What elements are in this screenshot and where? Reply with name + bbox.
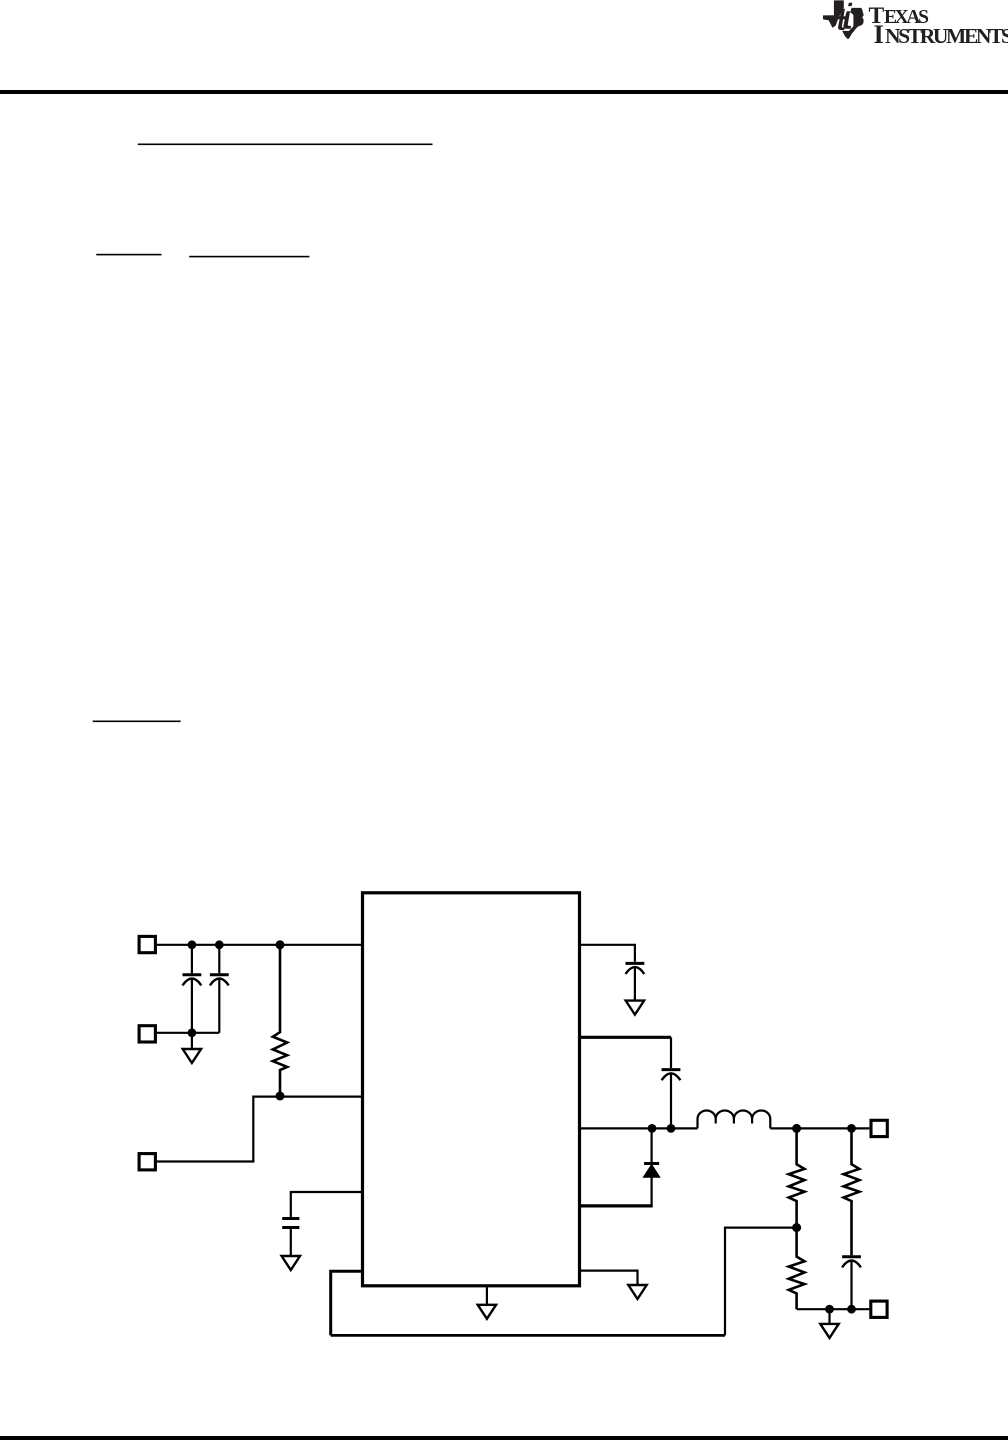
- terminal J2 GND-in: [139, 1026, 155, 1042]
- capacitor C4 bootstrap: [662, 1070, 681, 1129]
- capacitor C2: [210, 945, 229, 1033]
- terminal J3 EN: [139, 1154, 155, 1170]
- node outgnd-J5: [847, 1305, 856, 1314]
- node VOUT-divider: [792, 1124, 801, 1133]
- letter i of ti: [843, 11, 851, 29]
- capacitor C3 bypass: [626, 963, 645, 1000]
- resistor R2 (divider top): [789, 1128, 805, 1227]
- ground soft-start: [282, 1256, 300, 1270]
- bottom footer rule: [0, 1436, 1008, 1440]
- ground output: [820, 1309, 838, 1338]
- capacitor C5 soft-start: [282, 1219, 299, 1257]
- letter t of ti: [837, 9, 847, 30]
- wire PGND to diode (thick): [581, 1204, 653, 1207]
- wire FB bottom run: [331, 1334, 725, 1337]
- wire VIN bypass pin: [581, 945, 635, 962]
- ground U1 analog: [478, 1286, 496, 1319]
- node SW-diode: [648, 1124, 657, 1133]
- resistor R1 (enable pull-up): [273, 945, 287, 1096]
- TI logo bug (Texas outline): [823, 0, 864, 39]
- link underline left: [96, 254, 161, 256]
- node VIN-R1: [276, 940, 285, 949]
- wire VIN to U1: [157, 944, 363, 946]
- wire EN to U1: [157, 1097, 363, 1162]
- dot of i: [848, 3, 852, 6]
- wire PGND right pin: [581, 1271, 638, 1285]
- svg-text:I: I: [874, 19, 884, 49]
- link underline right: [189, 256, 309, 258]
- title underline (invisible text link): [138, 144, 433, 146]
- terminal J1 VIN: [139, 936, 155, 952]
- wire COMP pin (thick): [331, 1271, 363, 1335]
- diode D1 catch: [644, 1128, 659, 1206]
- op-amp U1 (regulator IC box): [363, 893, 580, 1286]
- node EN: [276, 1092, 285, 1101]
- terminal J4 VOUT: [871, 1120, 887, 1136]
- wire J2 to C1/C2 bottoms: [157, 1032, 220, 1034]
- wire output bottom: [797, 1308, 870, 1310]
- ground right: [628, 1285, 646, 1299]
- node FB: [792, 1223, 801, 1232]
- resistor R3 (divider bottom): [789, 1228, 805, 1310]
- capacitor C6 feed-forward: [842, 1257, 861, 1309]
- svg-text:NSTRUMENTS: NSTRUMENTS: [885, 24, 1008, 48]
- resistor R4 (feed-forward): [844, 1128, 860, 1255]
- wire SS pin: [291, 1192, 363, 1217]
- node outgnd: [825, 1305, 834, 1314]
- wire SW to inductor: [581, 1127, 698, 1129]
- wire FB up to divider: [725, 1228, 797, 1336]
- capacitor C1: [183, 945, 202, 1033]
- inductor L1: [698, 1111, 771, 1129]
- ground input: [183, 1033, 201, 1063]
- node GND-in: [188, 1028, 197, 1037]
- node VOUT-C6: [847, 1124, 856, 1133]
- terminal J5 VOUT return: [871, 1301, 887, 1317]
- ground bypass: [626, 1001, 644, 1015]
- white cut for ti letters: [836, 8, 853, 31]
- node SW-boot: [667, 1124, 676, 1133]
- wire inductor to J4: [770, 1127, 869, 1129]
- top header rule: [0, 90, 1008, 94]
- wire BOOT pin (thick): [581, 1036, 671, 1039]
- node VIN-C1: [188, 940, 197, 949]
- link underline mid-page: [93, 721, 181, 723]
- node VIN-C2: [215, 940, 224, 949]
